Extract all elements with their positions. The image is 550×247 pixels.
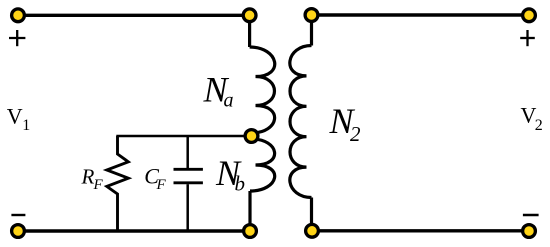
svg-text:V: V	[7, 104, 23, 129]
svg-text:F: F	[93, 177, 104, 193]
node bottom-right terminal	[523, 225, 536, 238]
svg-text:1: 1	[22, 117, 30, 134]
wire top-left rail	[18, 14, 250, 17]
node secondary top	[305, 9, 318, 22]
node top-right terminal	[523, 9, 536, 22]
node bottom-left terminal	[12, 225, 25, 238]
wire secondary top lead	[310, 15, 313, 46]
wire top-right rail	[312, 13, 530, 16]
wire secondary bottom lead	[310, 198, 313, 232]
inductor Nb (primary lower winding)	[250, 139, 275, 191]
wire primary bottom lead	[248, 191, 251, 231]
plus sign left	[9, 30, 25, 46]
svg-text:2: 2	[535, 117, 543, 134]
node tap junction	[245, 130, 258, 143]
svg-text:F: F	[156, 177, 167, 193]
inductor Na (primary upper winding)	[250, 47, 275, 133]
wire bottom-right rail	[312, 229, 529, 232]
wire primary top lead	[248, 15, 251, 47]
wire tap rail	[116, 135, 251, 138]
node primary top	[243, 9, 256, 22]
plus sign right	[520, 30, 535, 46]
capacitor CF	[174, 136, 203, 231]
minus sign left	[11, 214, 25, 216]
label CF	[144, 164, 166, 193]
inductor N2 (secondary winding)	[290, 46, 312, 198]
resistor RF	[107, 136, 129, 231]
label Nb	[215, 153, 245, 195]
svg-text:b: b	[235, 171, 246, 195]
svg-text:R: R	[81, 165, 95, 189]
label V2	[521, 103, 543, 134]
wire bottom-left rail	[18, 229, 250, 232]
node primary bottom	[244, 225, 257, 238]
svg-text:a: a	[224, 89, 234, 111]
label N2	[329, 101, 362, 146]
node top-left terminal	[12, 9, 25, 22]
label Na	[203, 69, 234, 111]
svg-text:2: 2	[350, 122, 361, 146]
label V1	[7, 104, 31, 135]
node secondary bottom	[306, 224, 319, 237]
label RF	[81, 165, 104, 193]
minus sign right	[523, 214, 539, 216]
